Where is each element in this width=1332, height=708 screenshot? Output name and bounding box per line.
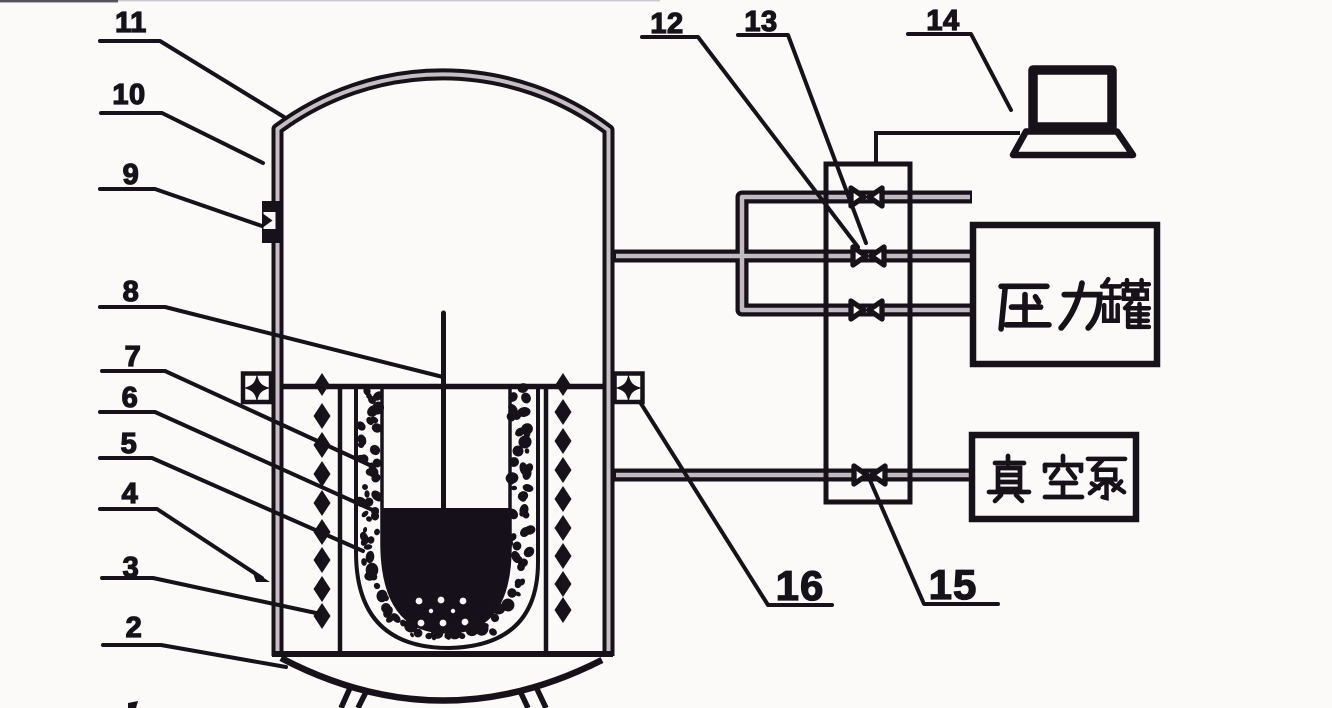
vessel bottom dished head	[281, 658, 602, 701]
pipe P4 vacuum line (black body)	[606, 469, 972, 482]
furnace chamber left line	[338, 389, 343, 651]
support lug left	[243, 374, 271, 403]
svg-text:16: 16	[776, 562, 825, 609]
heater elements column right	[555, 373, 572, 623]
leader line 16	[640, 402, 832, 605]
computer (14)	[1013, 70, 1133, 155]
leader line 3	[102, 578, 316, 613]
crucible inner wall	[382, 389, 510, 632]
leader line 9	[100, 189, 262, 226]
heater elements column left (3)	[314, 373, 331, 629]
svg-text:14: 14	[926, 5, 959, 37]
vessel shell interior grey	[278, 74, 609, 652]
valve manifold frame	[826, 164, 910, 502]
inner furnace top plate	[283, 384, 604, 390]
vacuum pump box	[972, 435, 1136, 519]
furnace chamber right line	[544, 389, 549, 651]
vessel bottom plate (2)	[272, 651, 613, 657]
leader line 2	[103, 645, 286, 667]
svg-text:2: 2	[126, 612, 143, 644]
valve V3 on bottom pipe	[851, 301, 882, 319]
leader line 13	[738, 35, 866, 243]
svg-text:7: 7	[125, 341, 142, 373]
svg-text:4: 4	[122, 478, 139, 510]
crucible refractory speckle texture	[353, 382, 536, 642]
pipe P4 interior	[616, 473, 969, 478]
pipe P2 middle (black body)	[606, 250, 973, 263]
arrowhead of leader 4	[252, 570, 270, 582]
leader line 4	[100, 509, 262, 578]
leader line 14	[908, 34, 1011, 110]
valve V1 on top pipe (12)	[851, 188, 882, 206]
svg-text:12: 12	[650, 8, 683, 40]
crucible outer wall (7)	[356, 389, 538, 648]
gas inlet valve on wall (9)	[262, 201, 282, 243]
signal line manifold to computer	[876, 133, 1020, 164]
svg-text:6: 6	[122, 382, 139, 414]
leader line 12	[642, 37, 858, 247]
vessel shell: walls (10) + dome (11) black band	[278, 74, 609, 656]
svg-text:3: 3	[123, 552, 140, 584]
svg-text:5: 5	[121, 428, 138, 460]
leader line 8	[100, 307, 443, 377]
svg-text:11: 11	[115, 7, 147, 39]
melt bubbles (gas holes)	[416, 597, 469, 627]
leader line 5	[100, 458, 363, 551]
valve V2 on middle pipe (13)	[853, 247, 884, 265]
valve V4 on vacuum pipe (15)	[854, 466, 885, 484]
leg right	[520, 689, 546, 708]
svg-text:8: 8	[123, 276, 140, 308]
pressure tank label 压力罐	[1001, 286, 1049, 329]
vacuum pump label 真空泵	[989, 456, 1029, 501]
svg-text:10: 10	[112, 79, 145, 111]
scan edge artifact top	[0, 0, 118, 2]
leader line 11	[100, 41, 284, 117]
support lug right	[615, 374, 643, 403]
label 1 (cut off at bottom)	[128, 701, 138, 708]
leader line 6	[100, 412, 377, 512]
leader line 15	[869, 478, 998, 604]
leader line 10	[101, 113, 263, 163]
pressure tank box	[973, 225, 1157, 364]
leader line 7	[102, 371, 374, 467]
stirring rod (8)	[441, 313, 446, 512]
pipe P1 top + bypass loop + pipe P3 (black body)	[742, 197, 973, 310]
svg-text:15: 15	[929, 561, 978, 608]
svg-text:13: 13	[744, 6, 777, 38]
svg-text:9: 9	[123, 159, 140, 191]
melt (5)	[381, 508, 511, 631]
leg left	[341, 688, 367, 708]
pipe P2 interior	[616, 254, 971, 259]
pipe P1/P3 interior	[742, 197, 971, 310]
